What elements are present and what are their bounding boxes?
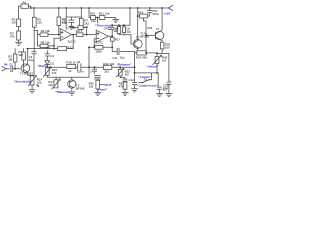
resistor R6 xyxy=(57,8,67,25)
wire audio bus xyxy=(47,66,134,68)
wire op-amp1 V+ xyxy=(65,8,67,30)
svg-text:10µ: 10µ xyxy=(62,20,67,24)
capacitor C10 xyxy=(123,79,127,82)
resistor R18 xyxy=(66,61,76,73)
svg-text:5V6: 5V6 xyxy=(147,26,153,30)
wire x89 drop to divider xyxy=(89,8,91,18)
svg-text:D1: D1 xyxy=(50,61,54,65)
resistor R19 xyxy=(138,10,150,18)
ground sensitivity pot xyxy=(29,85,35,93)
svg-text:100n: 100n xyxy=(77,69,84,73)
potentiometer R23 xyxy=(116,67,130,77)
wire x59 to plus input node xyxy=(58,25,60,34)
wire bottom rail xyxy=(47,76,89,78)
resistor R15 xyxy=(95,45,103,53)
capacitor C2 xyxy=(62,17,81,26)
capacitor C7 xyxy=(109,25,119,36)
wire T1 emitter xyxy=(28,72,34,76)
svg-text:R19: R19 xyxy=(138,10,144,14)
svg-text:R1: R1 xyxy=(23,0,27,4)
svg-text:22k: 22k xyxy=(48,83,53,87)
resistor R9 xyxy=(76,29,96,36)
capacitor C5 xyxy=(72,25,88,36)
ground R25 xyxy=(122,89,128,95)
svg-text:R22 10k: R22 10k xyxy=(103,62,114,66)
svg-text:10µ: 10µ xyxy=(126,29,131,33)
svg-text:10µ: 10µ xyxy=(29,58,34,62)
wire R28 bottom xyxy=(156,64,158,73)
wire pot to bottom rail xyxy=(46,75,48,77)
potentiometer R27 xyxy=(48,77,60,89)
svg-text:“Compressor”: “Compressor” xyxy=(137,84,159,88)
resistor R1 xyxy=(19,0,32,9)
capacitor C15 xyxy=(163,81,171,94)
op-amp OP1.1 xyxy=(60,25,76,43)
wire divider mid xyxy=(96,18,100,23)
transistor T4 xyxy=(155,27,164,40)
ground C12 xyxy=(132,89,138,92)
node feedback1 xyxy=(72,34,74,36)
svg-text:TL072: TL072 xyxy=(67,40,76,44)
ground C14 xyxy=(157,93,163,96)
wire to T3 base xyxy=(119,35,135,44)
potentiometer R28 xyxy=(153,53,168,64)
capacitor C14 xyxy=(157,73,168,94)
svg-text:“Level”: “Level” xyxy=(96,87,107,91)
capacitor C9 series xyxy=(112,48,124,60)
switch S1 xyxy=(139,73,152,83)
svg-text:“Makeup”: “Makeup” xyxy=(55,90,70,94)
wire feedback1 drop xyxy=(72,35,74,49)
svg-text:10k: 10k xyxy=(113,29,118,33)
resistor R25 xyxy=(119,82,127,90)
resistor R20 xyxy=(113,24,121,34)
svg-text:T4: T4 xyxy=(156,27,160,31)
resistor R17 xyxy=(111,37,121,41)
svg-text:R12: R12 xyxy=(67,45,73,49)
svg-text:C12: C12 xyxy=(129,78,135,82)
wire zener column xyxy=(144,18,147,53)
svg-text:4µ7: 4µ7 xyxy=(163,87,168,91)
resistor R29 xyxy=(160,39,171,49)
wire divider right to ground xyxy=(105,18,116,20)
svg-text:C: C xyxy=(90,70,92,74)
resistor R5 xyxy=(32,17,42,27)
svg-text:1M: 1M xyxy=(125,72,130,76)
resistor R21 xyxy=(123,24,132,34)
node rail-x59 xyxy=(58,7,60,9)
svg-text:“Release”: “Release” xyxy=(117,63,132,67)
node bus-pot xyxy=(46,66,48,68)
svg-text:“Sensitivity”: “Sensitivity” xyxy=(14,80,33,84)
wire between R2 R3 xyxy=(18,27,20,32)
node bus-x89 xyxy=(88,66,90,68)
capacitor C4 xyxy=(45,51,54,61)
ground level pot xyxy=(95,89,101,96)
svg-text:1M: 1M xyxy=(12,21,17,25)
svg-text:R4 10k: R4 10k xyxy=(41,29,51,33)
resistor R12 xyxy=(58,45,73,50)
capacitor C11 xyxy=(147,8,159,16)
ground R3 xyxy=(16,40,22,45)
node bus-release pot xyxy=(119,66,121,68)
capacitor C13 top bars xyxy=(95,75,101,80)
svg-text:R17: R17 xyxy=(115,37,121,41)
resistor R8 xyxy=(38,38,61,50)
wire x89 riser and drop xyxy=(88,47,90,77)
node rail-x89 xyxy=(88,7,90,9)
wire R24 left lead xyxy=(135,52,137,54)
input connector xyxy=(2,67,9,72)
wire T3 collector xyxy=(137,8,139,40)
label zener block xyxy=(140,26,152,39)
wire right bus xyxy=(162,53,169,80)
svg-text:22k: 22k xyxy=(37,21,42,25)
wire T1 collector xyxy=(27,49,29,65)
potentiometer R14 Sensitivity xyxy=(28,76,42,87)
svg-text:1k: 1k xyxy=(68,69,72,73)
wire limiter line xyxy=(135,72,159,74)
wire T4 collector xyxy=(160,8,163,32)
wire R4 R8 feed column xyxy=(34,30,38,46)
ground C2 xyxy=(69,26,73,29)
svg-text:10k: 10k xyxy=(89,84,94,88)
wire sidechain xyxy=(112,50,134,52)
svg-text:47k: 47k xyxy=(52,71,57,75)
svg-text:+12V: +12V xyxy=(163,12,171,16)
svg-text:C11: C11 xyxy=(112,56,117,60)
svg-text:R10: R10 xyxy=(90,11,96,15)
svg-text:BF245: BF245 xyxy=(76,87,85,91)
svg-text:TL072: TL072 xyxy=(95,41,104,45)
capacitor C3 xyxy=(29,52,36,75)
svg-text:47k: 47k xyxy=(10,35,15,39)
resistor R24 xyxy=(136,51,157,60)
transistor T3 xyxy=(133,36,142,49)
resistor R10 xyxy=(90,11,96,23)
diode D1 xyxy=(45,61,55,67)
resistor R3 xyxy=(10,31,21,40)
svg-text:10µ: 10µ xyxy=(120,56,125,60)
svg-text:R24 39k: R24 39k xyxy=(136,55,147,59)
resistor R2b xyxy=(8,49,17,69)
svg-text:10k: 10k xyxy=(37,81,42,85)
wire y25 bias line xyxy=(112,8,130,25)
svg-text:BF245: BF245 xyxy=(140,34,149,38)
resistor R2 xyxy=(12,18,21,27)
power connector chevron xyxy=(169,5,173,10)
capacitor C1 xyxy=(9,62,23,71)
wire top +12V rail xyxy=(31,7,169,9)
feedback2 path xyxy=(89,36,112,51)
op-amp OP1.2 xyxy=(95,27,113,45)
wire minus node drop xyxy=(53,46,55,49)
potentiometer R16 Ratio xyxy=(43,67,57,77)
wire feedback chain xyxy=(27,48,73,50)
ground right xyxy=(166,94,172,97)
svg-text:100k: 100k xyxy=(95,49,102,53)
svg-text:2k2: 2k2 xyxy=(104,69,109,73)
wire release pot bottom xyxy=(120,76,125,79)
svg-text:C1: C1 xyxy=(9,62,13,66)
node rail-x34 xyxy=(33,7,35,9)
ground T2 xyxy=(69,88,75,95)
resistor R5b xyxy=(18,49,25,65)
wire op2 output xyxy=(108,35,112,37)
wire op1 output xyxy=(72,34,77,36)
svg-text:47k: 47k xyxy=(46,46,51,50)
resistor R4 xyxy=(38,29,61,36)
resistor R7 xyxy=(79,8,89,32)
svg-text:R8 10k: R8 10k xyxy=(41,41,51,45)
resistor R11 xyxy=(99,11,110,19)
transistor T2 xyxy=(68,77,85,90)
resistor R22 xyxy=(103,62,114,74)
capacitor C12 xyxy=(129,78,137,89)
wire T4 base xyxy=(146,34,155,36)
svg-text:4k7: 4k7 xyxy=(18,53,23,57)
svg-text:47k: 47k xyxy=(119,85,124,89)
svg-text:C4: C4 xyxy=(50,54,54,58)
wire bus end drop xyxy=(134,51,136,82)
wire R1 left drop xyxy=(18,6,20,19)
capacitor C6 xyxy=(77,60,84,73)
svg-text:R18 1k: R18 1k xyxy=(66,61,76,65)
node rail-x149.7 xyxy=(149,7,151,9)
capacitor C16 xyxy=(90,67,96,73)
svg-text:R11 10k: R11 10k xyxy=(99,11,110,15)
svg-text:C5: C5 xyxy=(84,25,88,29)
wire T3 emitter down xyxy=(137,48,139,51)
svg-text:470µ: 470µ xyxy=(152,12,159,16)
svg-text:1M: 1M xyxy=(8,58,13,62)
node rail-x66.2 xyxy=(65,7,67,9)
node rail-x81.3 xyxy=(80,7,82,9)
wire T4 emitter chain xyxy=(157,49,162,53)
svg-text:100: 100 xyxy=(165,45,170,49)
svg-text:1M: 1M xyxy=(162,59,167,63)
svg-text:C6: C6 xyxy=(77,60,81,64)
transistor T1 xyxy=(20,64,33,76)
ground divider xyxy=(113,20,119,23)
node op2 out xyxy=(111,35,113,37)
wire x34 long drop xyxy=(33,8,35,52)
potentiometer R26 Level xyxy=(89,80,105,89)
